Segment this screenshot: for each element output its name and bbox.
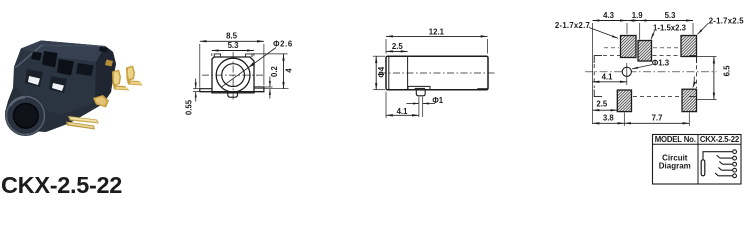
front face <box>14 49 104 116</box>
dim 4.1 <box>386 114 419 116</box>
right smt pad <box>477 88 488 90</box>
leader 2-1.7x2.5 <box>698 23 709 34</box>
svg-text:2.5: 2.5 <box>596 100 608 109</box>
svg-text:2.5: 2.5 <box>392 42 404 51</box>
dim 8.5 <box>200 40 264 42</box>
dim 0.2 arrows <box>269 77 271 88</box>
svg-text:4.3: 4.3 <box>603 11 615 20</box>
dim 12.1 <box>386 35 488 37</box>
centerline vertical <box>232 52 234 101</box>
pin right wing 2 <box>126 66 143 86</box>
pad A <box>621 36 637 58</box>
terminal 1 <box>733 150 737 154</box>
window 1 contact <box>28 76 40 85</box>
barrel specular <box>11 98 26 106</box>
svg-text:4: 4 <box>285 68 294 73</box>
bottom dims <box>593 122 625 124</box>
svg-text:1-1.5x2.3: 1-1.5x2.3 <box>653 23 687 32</box>
terminal 2 with switch tick <box>733 156 737 160</box>
center hole circle <box>622 67 631 76</box>
terminal 4 with switch tick <box>733 168 737 172</box>
terminal 3 with switch tick <box>733 162 737 166</box>
svg-text:2-1.7x2.7: 2-1.7x2.7 <box>555 21 590 30</box>
circuit diagram <box>701 150 736 178</box>
top slot small <box>31 52 42 61</box>
ridge highlight <box>15 45 42 68</box>
dim 4 <box>283 54 285 89</box>
barrel outer <box>5 95 46 136</box>
dia 2.6 leader <box>222 48 276 87</box>
svg-text:CKX-2.5-22: CKX-2.5-22 <box>700 135 740 144</box>
horizontal centerline <box>585 71 717 73</box>
svg-text:Φ2.6: Φ2.6 <box>273 40 293 49</box>
svg-text:Φ1.3: Φ1.3 <box>652 58 670 67</box>
dim 4.1 fp <box>593 81 627 83</box>
leader dia1.3 <box>632 65 653 69</box>
terminal 5 with switch tick <box>733 174 737 178</box>
svg-text:3.8: 3.8 <box>603 113 615 122</box>
svg-text:12.1: 12.1 <box>429 28 445 37</box>
centerline horizontal <box>202 74 265 76</box>
svg-text:Φ4: Φ4 <box>377 66 386 77</box>
pin nub top right <box>105 60 113 67</box>
body silhouette <box>5 41 116 133</box>
pad E <box>682 89 697 111</box>
svg-text:4.1: 4.1 <box>397 107 409 116</box>
pad B <box>638 41 652 62</box>
ridge highlight top <box>42 45 105 47</box>
fork prong upper <box>68 116 99 124</box>
body outline <box>386 56 488 89</box>
svg-text:Φ1: Φ1 <box>432 96 443 105</box>
flange left <box>200 89 212 92</box>
pin lower front <box>93 95 109 108</box>
dim 2.5 fp <box>593 109 618 111</box>
inner circle <box>222 64 245 87</box>
svg-text:Diagram: Diagram <box>659 162 691 171</box>
top face <box>21 41 112 63</box>
top tab left <box>214 54 220 57</box>
dim 0.55 arrows <box>195 79 197 89</box>
barrel hole <box>13 104 38 129</box>
leader 1-1.5x2.3 <box>651 31 655 39</box>
top-right notch <box>99 47 108 53</box>
svg-text:6.5: 6.5 <box>723 65 732 77</box>
section line 2.5 <box>407 56 409 89</box>
top tab right <box>246 54 252 57</box>
flange right <box>254 87 264 92</box>
fork prong lower <box>66 122 95 130</box>
window 2 frame <box>49 76 67 93</box>
svg-text:5.3: 5.3 <box>665 11 677 20</box>
window 1 frame <box>25 69 43 87</box>
body outline <box>212 57 254 93</box>
row centerline top pads <box>604 47 619 49</box>
dia1 extension lines <box>418 97 420 117</box>
bottom notch <box>408 86 430 89</box>
svg-text:7.7: 7.7 <box>652 113 663 122</box>
svg-text:4.1: 4.1 <box>602 73 614 82</box>
pad C <box>681 36 697 57</box>
leader 2-1.7x2.7 <box>589 28 618 39</box>
dim dia4 <box>375 56 377 89</box>
svg-text:2-1.7x2.5: 2-1.7x2.5 <box>709 17 745 26</box>
svg-text:0.55: 0.55 <box>185 99 194 115</box>
right end face <box>95 46 116 104</box>
svg-text:5.3: 5.3 <box>228 41 240 50</box>
dim 2.5 <box>386 50 408 52</box>
svg-text:1.9: 1.9 <box>632 11 644 20</box>
outline dashed (piecewise) <box>603 55 620 57</box>
outer circle <box>216 58 250 92</box>
contact pad hatched <box>415 88 426 90</box>
corner brackets <box>594 56 602 63</box>
top dims <box>593 20 628 22</box>
svg-text:0.2: 0.2 <box>270 66 279 78</box>
dim 6.5 <box>713 57 715 100</box>
centerline <box>380 72 496 74</box>
wire from sleeve to terminal 1 <box>703 152 733 160</box>
svg-text:8.5: 8.5 <box>226 32 238 41</box>
pin right wing 1 <box>112 70 130 91</box>
top slot right <box>57 59 74 76</box>
pin below <box>416 90 425 96</box>
svg-text:CKX-2.5-22: CKX-2.5-22 <box>1 172 122 196</box>
leader pad E <box>693 77 695 88</box>
svg-text:MODEL No.: MODEL No. <box>655 135 696 144</box>
barrel rim line <box>388 56 390 89</box>
pin bump <box>228 92 238 98</box>
top slot large <box>42 51 58 68</box>
sleeve capsule <box>701 160 705 176</box>
dim 5.3 <box>212 50 254 52</box>
pad D <box>617 90 631 112</box>
dia1 arrows <box>407 103 419 105</box>
window 2 contact <box>52 83 64 91</box>
